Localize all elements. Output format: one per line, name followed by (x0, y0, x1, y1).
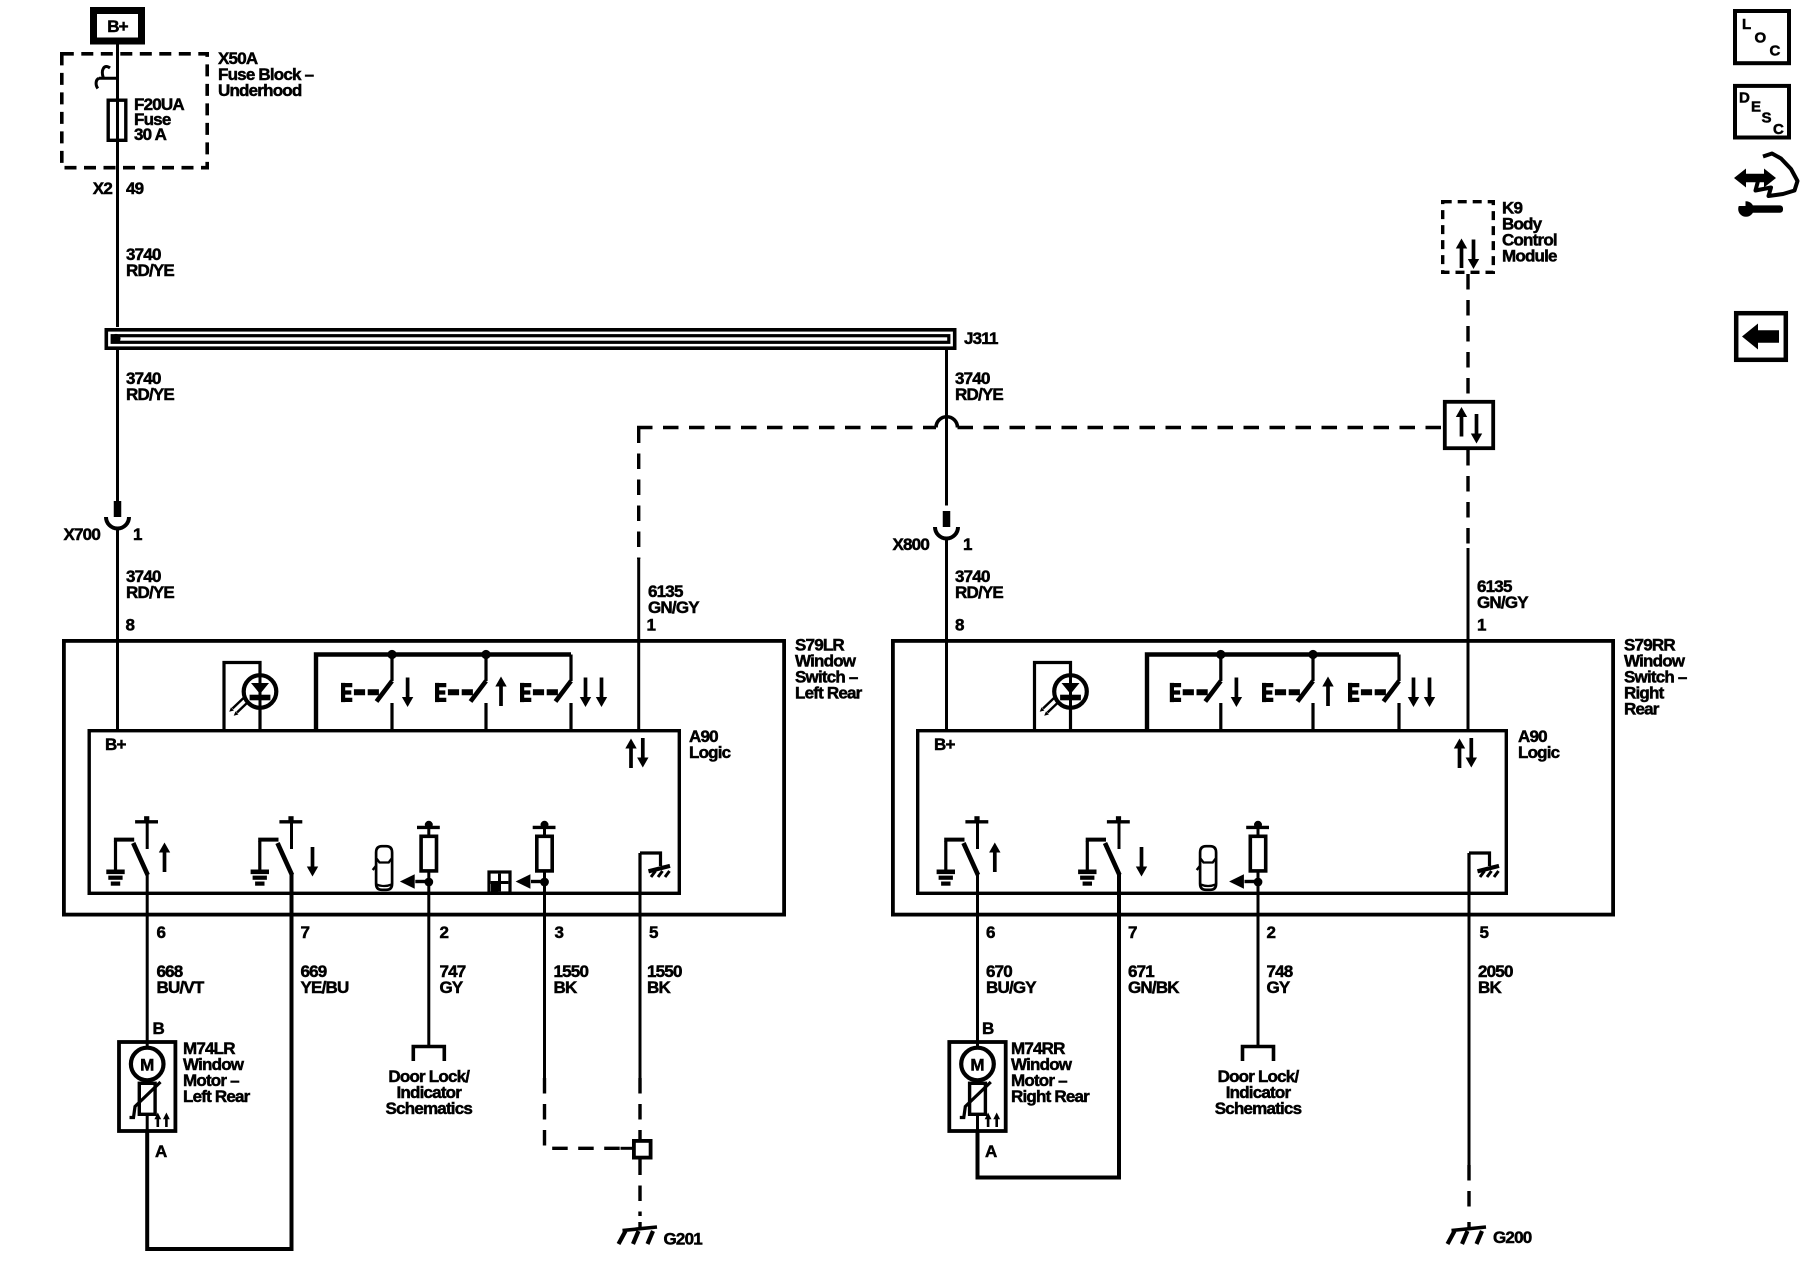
svg-text:BK: BK (647, 978, 671, 997)
svg-text:B: B (982, 1019, 994, 1038)
window down switch contact right (1170, 655, 1221, 730)
svg-text:L: L (1742, 16, 1751, 33)
svg-text:A: A (155, 1142, 167, 1161)
svg-text:RD/YE: RD/YE (126, 385, 174, 404)
wire label 6135 GN/GY left (648, 582, 700, 617)
label A90 Logic right (1518, 727, 1560, 762)
svg-text:2: 2 (440, 923, 449, 942)
wire label 3740 RD/YE left (126, 369, 174, 404)
svg-text:5: 5 (649, 923, 658, 942)
svg-text:Schematics: Schematics (1215, 1099, 1302, 1118)
wire label 3740 RD/YE (955, 567, 1003, 602)
svg-text:6: 6 (986, 923, 995, 942)
svg-text:YE/BU: YE/BU (301, 978, 349, 997)
svg-text:RD/YE: RD/YE (126, 583, 174, 602)
dashed wire drop to left pin 1 (637, 428, 640, 560)
svg-text:1: 1 (647, 616, 656, 635)
up arrow (159, 843, 170, 873)
down arrow in K9 (1468, 240, 1479, 270)
label 669 YE/BU (301, 962, 349, 997)
svg-text:Rear: Rear (1624, 700, 1660, 719)
label 670 BU/GY (986, 962, 1037, 997)
svg-text:2: 2 (1267, 923, 1276, 942)
svg-text:GN/BK: GN/BK (1128, 978, 1180, 997)
wire 671 motor loop to pin 7 (978, 874, 1120, 1178)
wire 748 pin 2 to door lock (1257, 882, 1260, 1046)
svg-text:J311: J311 (964, 329, 998, 348)
svg-text:5: 5 (1480, 923, 1489, 942)
label Door Lock Indicator Schematics right (1215, 1067, 1302, 1118)
svg-text:Left Rear: Left Rear (795, 684, 863, 703)
label S79RR Window Switch Right Rear (1624, 636, 1687, 719)
window down switch contact left (341, 655, 392, 730)
lockout resistor pin 2 right (1229, 821, 1269, 889)
off-page bracket door lock right (1243, 1047, 1274, 1062)
repair icon wrench (1738, 200, 1783, 217)
up arrow in logic box (1456, 407, 1467, 437)
label 668 BU/VT (157, 962, 205, 997)
window motor M74RR (949, 1042, 1005, 1131)
label X800 1 (892, 535, 972, 554)
svg-text:C: C (1770, 43, 1781, 60)
double down arrow (1424, 678, 1435, 708)
window switch S79RR outer box (893, 641, 1613, 915)
wire 1550 pin 3 (543, 882, 546, 1078)
back arrow box (1736, 313, 1786, 360)
svg-text:C: C (1773, 121, 1784, 138)
indicator LED right (1035, 663, 1087, 730)
label M74RR Window Motor Right Rear (1011, 1039, 1090, 1106)
window express-down switch contact right (1348, 655, 1399, 730)
label 1550 BK (554, 962, 589, 997)
wire 669 motor loop to pin 7 (147, 874, 291, 1249)
label K9 Body Control Module (1502, 199, 1557, 266)
up arrow in K9 (1456, 239, 1467, 269)
wire label 3740 RD/YE right (955, 369, 1003, 404)
wire 6135 solid to left pin 1 (637, 559, 640, 729)
svg-text:BK: BK (554, 978, 578, 997)
dashed wire pin 3 to splice (545, 1078, 621, 1148)
switch bus wire left (316, 655, 571, 730)
svg-text:Logic: Logic (689, 743, 731, 762)
svg-text:BK: BK (1478, 978, 1502, 997)
svg-text:G201: G201 (664, 1230, 703, 1249)
svg-text:B+: B+ (105, 735, 126, 754)
wire J311 to X800 (945, 350, 948, 506)
down arrow A90 right (1466, 738, 1477, 768)
window lockout icon (489, 872, 510, 893)
wire 670 pin 6 to motor (976, 874, 979, 1042)
svg-text:BU/VT: BU/VT (157, 978, 205, 997)
label 748 GY (1267, 962, 1293, 997)
window up switch contact right (1262, 655, 1313, 730)
up arrow (989, 843, 1000, 873)
logic block A90 inner box right (918, 731, 1507, 894)
power node B+ (94, 11, 142, 42)
svg-text:1: 1 (133, 525, 142, 544)
svg-text:Right Rear: Right Rear (1011, 1087, 1090, 1106)
svg-text:Logic: Logic (1518, 743, 1560, 762)
node on bus (1308, 650, 1317, 659)
svg-text:A: A (985, 1142, 997, 1161)
down arrow (1136, 847, 1147, 877)
fuse F20UA 30A (108, 100, 126, 140)
label S79LR Window Switch Left Rear (795, 636, 863, 703)
label X50A Fuse Block Underhood (218, 49, 314, 100)
wire 668 pin 6 to motor (146, 874, 149, 1042)
up arrow (495, 677, 506, 707)
wire label 6135 GN/GY right (1477, 577, 1529, 612)
up arrow A90 right (1454, 739, 1465, 769)
up arrow (1322, 677, 1333, 707)
label 2050 BK (1478, 962, 1513, 997)
svg-text:RD/YE: RD/YE (955, 385, 1003, 404)
svg-text:O: O (1755, 30, 1767, 47)
svg-text:GN/GY: GN/GY (1477, 593, 1529, 612)
svg-text:1: 1 (963, 535, 972, 554)
wire B+ to bus bar J311 (116, 45, 119, 328)
wire X700 to switch pin 8 (116, 527, 119, 730)
svg-text:B+: B+ (934, 735, 955, 754)
svg-text:S: S (1762, 110, 1772, 127)
window up switch contact left (435, 655, 486, 730)
svg-text:7: 7 (1128, 923, 1137, 942)
label A90 Logic (689, 727, 731, 762)
label 1550 BK (647, 962, 682, 997)
svg-text:Left Rear: Left Rear (183, 1087, 251, 1106)
svg-text:X800: X800 (892, 535, 929, 554)
label Door Lock Indicator Schematics left (386, 1067, 473, 1118)
dashed wire logic box to right pin 1 (1466, 450, 1469, 548)
wire 2050 pin 5 right (1468, 895, 1471, 1165)
svg-text:1: 1 (1477, 616, 1486, 635)
svg-text:RD/YE: RD/YE (126, 261, 174, 280)
wire X800 to switch pin 8 (945, 537, 948, 730)
window motion logic box (1445, 402, 1493, 448)
window express-down switch contact left (520, 655, 571, 730)
window motor M74LR (119, 1042, 175, 1131)
svg-text:B: B (153, 1019, 165, 1038)
label 671 GN/BK (1128, 962, 1180, 997)
fuse block X50A dashed box (62, 54, 207, 168)
dashed wire to G200 (1467, 1165, 1470, 1216)
switch bus wire right (1147, 655, 1399, 730)
down arrow (1231, 678, 1242, 708)
double down arrow (580, 678, 591, 708)
down arrow in logic box (1471, 414, 1482, 444)
wire 747 pin 2 to door lock (427, 882, 430, 1046)
svg-text:RD/YE: RD/YE (955, 583, 1003, 602)
label X700 1 (63, 525, 142, 544)
window switch S79LR outer box (64, 641, 784, 915)
ground splice box (634, 1141, 651, 1158)
svg-text:Module: Module (1502, 247, 1557, 266)
connector X800 (935, 511, 958, 539)
repair icon arrow outline (1756, 154, 1798, 197)
dashed wire splice to G201 (638, 1160, 641, 1217)
internal ground return pin 5 right (1469, 853, 1499, 895)
LOC navigation box (1735, 11, 1789, 63)
svg-text:B+: B+ (107, 17, 128, 36)
svg-text:3: 3 (555, 923, 564, 942)
svg-text:GN/GY: GN/GY (648, 598, 700, 617)
label F20UA Fuse 30 A (134, 95, 184, 144)
down arrow (307, 847, 318, 877)
svg-text:30 A: 30 A (134, 125, 167, 144)
wire hop over 3740 (936, 417, 958, 428)
svg-text:49: 49 (126, 179, 144, 198)
lockout resistor pin 2 left (400, 821, 440, 889)
svg-text:E: E (1751, 99, 1761, 116)
DESC navigation box (1735, 86, 1789, 138)
splice bus bar J311 (106, 330, 954, 348)
svg-text:D: D (1739, 90, 1750, 107)
ground G201 (619, 1222, 658, 1244)
wire 6135 solid to right pin 1 (1467, 548, 1470, 729)
svg-text:7: 7 (301, 923, 310, 942)
down ground switch pin 7 left (251, 816, 303, 883)
label 747 GY (440, 962, 466, 997)
double down arrow (596, 678, 607, 708)
svg-text:X700: X700 (63, 525, 100, 544)
down arrow (402, 678, 413, 708)
up ground switch pin 6 left (106, 816, 158, 883)
label M74LR Window Motor Left Rear (183, 1039, 251, 1106)
svg-text:8: 8 (955, 616, 964, 635)
car icon (373, 846, 392, 890)
indicator LED left (224, 663, 276, 730)
svg-text:Underhood: Underhood (218, 81, 302, 100)
connector X700 (106, 501, 129, 529)
up ground switch pin 6 right (937, 816, 989, 883)
down arrow A90 left (637, 738, 648, 768)
svg-text:Schematics: Schematics (386, 1099, 473, 1118)
svg-text:8: 8 (126, 616, 135, 635)
dashed wire 6135 horizontal run (637, 426, 1444, 429)
node on bus (387, 650, 396, 659)
ground G200 (1448, 1222, 1487, 1244)
wire 1550 pin 5 (639, 895, 642, 1078)
repair icon double arrow (1734, 169, 1776, 188)
double down arrow (1408, 678, 1419, 708)
wire J311 to X700 (116, 350, 119, 502)
car icon right (1197, 846, 1216, 890)
wire label 3740 RD/YE (126, 567, 174, 602)
internal ground return pin 5 left (640, 853, 670, 895)
splice tick (621, 1147, 633, 1150)
svg-text:6: 6 (157, 923, 166, 942)
up arrow A90 left (625, 739, 636, 769)
down ground switch pin 7 right (1078, 816, 1130, 883)
svg-text:G200: G200 (1493, 1228, 1532, 1247)
svg-text:GY: GY (440, 978, 464, 997)
node on bus (1216, 650, 1225, 659)
logic block A90 inner box left (89, 731, 679, 894)
fuse element hook (96, 67, 117, 89)
svg-text:BU/GY: BU/GY (986, 978, 1037, 997)
body control module K9 dashed box (1443, 202, 1494, 273)
window lockout resistor pin 3 left (516, 821, 556, 889)
dashed wire K9 to window logic box (1466, 274, 1469, 400)
svg-text:X2: X2 (93, 179, 113, 198)
dashed wire pin 5 to splice (638, 1078, 641, 1139)
svg-text:GY: GY (1267, 978, 1291, 997)
node on bus (481, 650, 490, 659)
wire label 3740 RD/YE (126, 245, 174, 280)
off-page bracket door lock left (413, 1047, 444, 1062)
connector pin labels X2 49 (93, 179, 144, 198)
